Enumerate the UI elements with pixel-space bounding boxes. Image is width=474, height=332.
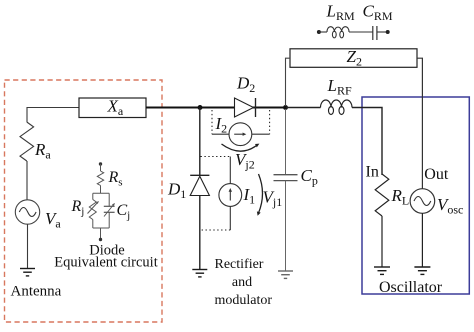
svg-text:Vj1: Vj1 [263, 188, 283, 209]
Oscillator label [379, 279, 443, 296]
capacitor C_p branch [274, 109, 298, 271]
C_p label [301, 166, 318, 187]
resistor R_j (variable) [88, 193, 100, 228]
L_RF label [327, 76, 352, 97]
wire D1 branch from junction [199, 108, 201, 176]
D_2 label [236, 74, 255, 95]
svg-text:Antenna: Antenna [11, 284, 62, 300]
svg-text:D2: D2 [236, 74, 255, 95]
source V_osc [410, 189, 435, 214]
source V_a [15, 200, 39, 224]
X_a label [107, 97, 124, 118]
ground (D_1) [192, 270, 207, 277]
svg-text:CRM: CRM [363, 2, 393, 23]
main bold wire X_a to Z2/Cp junction [146, 107, 286, 109]
svg-text:Rectifier: Rectifier [215, 257, 264, 272]
wire D_1 to ground [199, 196, 201, 270]
svg-text:Cj: Cj [117, 202, 131, 221]
Equivalent circuit label [54, 255, 157, 271]
resistor R_L [375, 174, 389, 216]
svg-text:LRM: LRM [326, 2, 355, 23]
R_s label [108, 169, 123, 188]
V_a label [45, 209, 61, 230]
svg-text:Va: Va [45, 209, 61, 230]
V_j1 arc arrow [257, 174, 263, 216]
Diode label [89, 243, 124, 259]
impedance box X_a [79, 98, 146, 118]
I_2 label [215, 114, 228, 135]
resistor R_s [97, 171, 103, 186]
wire L_RF into oscillator (In branch) [352, 108, 382, 176]
svg-text:Vosc: Vosc [437, 195, 463, 216]
Z_2 label [347, 47, 362, 68]
diode equivalent: bottom node dot [99, 238, 102, 241]
node: junction D1 branch [198, 105, 203, 110]
resistor R_a [20, 122, 34, 161]
diode D_2 [235, 98, 256, 117]
svg-text:LRF: LRF [327, 76, 352, 97]
ground (antenna) [20, 269, 35, 276]
wire node to R_s [100, 164, 102, 171]
svg-text:D1: D1 [167, 180, 186, 201]
wire R_L to ground [381, 216, 383, 267]
wire V_a to ground [27, 224, 29, 268]
inductor L_RM with terminals [317, 27, 373, 38]
diode D_1 [190, 175, 209, 195]
L_RM label [326, 2, 355, 23]
Rectifier and modulator label [215, 257, 273, 308]
Out label [424, 166, 449, 183]
svg-text:Cp: Cp [301, 166, 318, 187]
R_L label [391, 186, 410, 207]
ground (V_osc) [414, 267, 430, 274]
wire R_a to V_a [26, 161, 28, 200]
wire R_s to parallel loop [100, 186, 102, 194]
svg-text:In: In [366, 164, 379, 181]
svg-text:and: and [232, 275, 252, 290]
diode equivalent: top node dot [99, 162, 102, 165]
svg-text:Rj: Rj [71, 198, 85, 217]
impedance box Z_2 [290, 49, 417, 68]
D_1 label [167, 180, 186, 201]
R_j label [71, 198, 85, 217]
wire Z_2 right to V_osc [417, 58, 422, 188]
parallel loop bottom bar [93, 227, 109, 229]
inductor L_RF [321, 100, 353, 114]
ground (C_p) [278, 271, 293, 278]
C_RM label [363, 2, 393, 23]
R_a label [34, 140, 51, 161]
node: junction Z2/Cp branch [283, 105, 288, 110]
svg-text:Equivalent circuit: Equivalent circuit [54, 255, 157, 271]
V_j1 label [263, 188, 283, 209]
capacitor C_j (variable) [104, 193, 115, 228]
capacitor C_RM with terminal [373, 26, 390, 40]
wire V_osc to ground [421, 213, 423, 267]
current source I_1 (dotted connections) [201, 157, 242, 231]
wire: V_a branch top to X_a [27, 108, 79, 123]
svg-text:Ra: Ra [34, 140, 51, 161]
wire Z_2 left to junction [286, 58, 291, 106]
V_osc label [437, 195, 463, 216]
svg-text:I2: I2 [215, 114, 228, 135]
Antenna label [11, 284, 62, 300]
parallel loop top bar [93, 192, 109, 194]
current source I_2 (dotted connections) [212, 110, 270, 146]
wire loop to bottom node [100, 228, 102, 239]
svg-text:modulator: modulator [215, 293, 273, 308]
antenna dashed box [5, 80, 163, 322]
ground (R_L) [374, 267, 390, 274]
svg-text:I1: I1 [243, 185, 256, 206]
svg-text:RL: RL [391, 186, 410, 207]
svg-text:Rs: Rs [108, 169, 123, 188]
V_j2 label [235, 150, 255, 171]
oscillator blue box [362, 97, 469, 294]
svg-text:Vj2: Vj2 [235, 150, 255, 171]
In label [366, 164, 379, 181]
svg-text:Oscillator: Oscillator [379, 279, 443, 296]
wire junction to L_RF [286, 107, 321, 109]
svg-text:Out: Out [424, 166, 449, 183]
I_1 label [243, 185, 256, 206]
C_j label [117, 202, 131, 221]
V_j2 arc arrow [222, 144, 260, 152]
